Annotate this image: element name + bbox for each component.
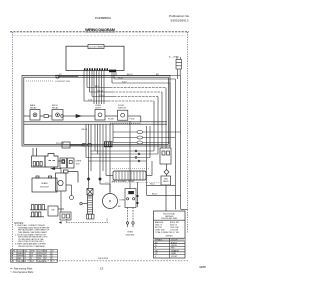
svg-text:FGF368MXA: FGF368MXA — [95, 16, 111, 20]
svg-text:P22 P23: P22 P23 — [56, 143, 65, 145]
svg-text:OVEN: OVEN — [127, 232, 133, 234]
svg-text:24C22026: 24C22026 — [98, 258, 109, 260]
svg-text:RELAY: RELAY — [52, 107, 59, 110]
svg-text:◄––OVEN: ◄––OVEN — [169, 56, 180, 59]
svg-text:GY-14: GY-14 — [99, 95, 105, 97]
svg-text:TOD: TOD — [76, 164, 81, 166]
svg-text:2: 2 — [52, 261, 53, 263]
svg-text:CONV: CONV — [119, 200, 125, 202]
svg-text:*– Non-Serviced Parts: *– Non-Serviced Parts — [11, 271, 35, 274]
svg-text:P5-BK: P5-BK — [108, 118, 114, 120]
svg-text:W: W — [155, 245, 157, 247]
svg-text:#– Fast-moving Parts: #– Fast-moving Parts — [11, 267, 34, 270]
svg-text:SYMBOL: SYMBOL — [155, 240, 163, 242]
svg-text:13: 13 — [100, 267, 104, 271]
svg-text:BK-14: BK-14 — [152, 194, 157, 196]
svg-text:VIOLET: VIOLET — [171, 256, 178, 258]
svg-text:SPARK: SPARK — [41, 182, 48, 185]
svg-text:UNLESS NOTED OTHERWISE.: UNLESS NOTED OTHERWISE. — [18, 246, 46, 248]
svg-text:GROUND: GROUND — [126, 235, 135, 237]
svg-text:ORANGE: ORANGE — [171, 249, 180, 252]
svg-text:GRAY: GRAY — [171, 252, 177, 255]
svg-text:4488: 4488 — [199, 265, 206, 269]
svg-text:BAKE ELEMENT 2600W: BAKE ELEMENT 2600W — [112, 180, 134, 183]
svg-text:LOCKOUT SW: LOCKOUT SW — [55, 81, 71, 83]
svg-text:5995268913: 5995268913 — [171, 18, 189, 22]
svg-text:WIRING DIAGRAM: WIRING DIAGRAM — [85, 27, 115, 32]
svg-text:M: M — [109, 199, 111, 203]
svg-text:WIRING: WIRING — [166, 236, 174, 238]
svg-text:CLOCK/TIMER: CLOCK/TIMER — [89, 47, 104, 49]
svg-text:OVEN: OVEN — [76, 161, 82, 163]
svg-text:BR-14: BR-14 — [82, 129, 89, 131]
svg-text:W-14: W-14 — [150, 184, 154, 186]
svg-text:DSI: DSI — [51, 210, 55, 212]
svg-text:MODULE: MODULE — [40, 187, 49, 189]
svg-text:SWITCH: SWITCH — [118, 108, 126, 110]
svg-text:GREEN: GREEN — [38, 261, 45, 263]
svg-text:THIS RANGE. SEE WIRE CHART.: THIS RANGE. SEE WIRE CHART. — [18, 231, 48, 234]
svg-text:VALVE: VALVE — [163, 180, 169, 183]
svg-text:14: 14 — [45, 261, 47, 263]
svg-text:COLOR: COLOR — [171, 240, 178, 242]
svg-text:OR-14: OR-14 — [97, 90, 104, 92]
svg-text:120/240 VAC 60HZ: 120/240 VAC 60HZ — [161, 217, 178, 220]
svg-text:WHITE: WHITE — [171, 245, 178, 247]
svg-text:P6-W: P6-W — [130, 119, 135, 121]
svg-text:BLACK: BLACK — [171, 241, 178, 244]
svg-text:14: 14 — [24, 261, 26, 263]
svg-text:RELAY: RELAY — [30, 107, 37, 110]
svg-text:TOTAL CONNECTED 5.7 KW: TOTAL CONNECTED 5.7 KW — [155, 231, 179, 234]
